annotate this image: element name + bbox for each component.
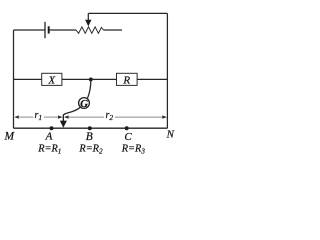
- wire: wiper arm to top right: [88, 12, 167, 14]
- wire: junction down to galvanometer: [88, 79, 91, 98]
- dimension r2 line right part: [115, 116, 163, 118]
- wire: battery row left segment: [14, 29, 45, 31]
- svg-text:r2: r2: [105, 110, 113, 122]
- svg-text:C: C: [124, 131, 132, 143]
- junction dot on X-R row: [89, 77, 93, 81]
- wire: R box to right vertical: [137, 78, 167, 80]
- svg-text:r1: r1: [34, 110, 42, 122]
- resistor R box: [117, 73, 138, 85]
- resistor X box: [42, 73, 62, 85]
- node B dot: [88, 126, 92, 130]
- rheostat wiper arrow shaft: [87, 13, 89, 20]
- battery B1 long plate: [44, 22, 46, 38]
- dimension r1 left arrowhead: [14, 115, 19, 118]
- svg-text:R=R1: R=R1: [37, 144, 61, 156]
- wire: left vertical: [13, 30, 15, 128]
- galvanometer G circle: [79, 98, 90, 109]
- wire: battery to rheostat: [50, 29, 76, 31]
- svg-text:N: N: [166, 128, 175, 140]
- svg-text:A: A: [45, 131, 53, 143]
- dimension r2 line left part: [68, 116, 104, 118]
- dimension r2 right arrowhead: [162, 115, 167, 118]
- svg-text:M: M: [4, 130, 16, 142]
- svg-text:B: B: [86, 131, 93, 143]
- jockey arrowhead: [60, 121, 67, 128]
- svg-text:G: G: [80, 98, 88, 110]
- dimension r1 line right part: [44, 116, 59, 118]
- rheostat resistive element (zigzag): [76, 27, 103, 33]
- svg-text:X: X: [47, 74, 56, 86]
- svg-text:R=R3: R=R3: [121, 144, 146, 156]
- bridge wire M-N: [14, 127, 168, 129]
- dimension r1 right arrowhead: [58, 115, 63, 118]
- battery B1 short plate: [48, 26, 50, 33]
- svg-text:R=R2: R=R2: [78, 144, 103, 156]
- node C dot: [125, 126, 129, 130]
- wire: galvanometer to jockey (curved): [63, 107, 80, 115]
- dimension r2 left arrowhead: [64, 115, 69, 118]
- jockey arrow shaft: [62, 115, 64, 122]
- wire: row to X box: [14, 78, 42, 80]
- wire: rheostat right stub (open end): [103, 29, 122, 31]
- wire: X box to R box: [62, 78, 117, 80]
- node A dot: [50, 126, 54, 130]
- wire: right vertical: [166, 13, 168, 128]
- rheostat wiper arrowhead: [85, 20, 91, 27]
- dimension r1 line left part: [18, 116, 33, 118]
- svg-text:R: R: [122, 74, 130, 86]
